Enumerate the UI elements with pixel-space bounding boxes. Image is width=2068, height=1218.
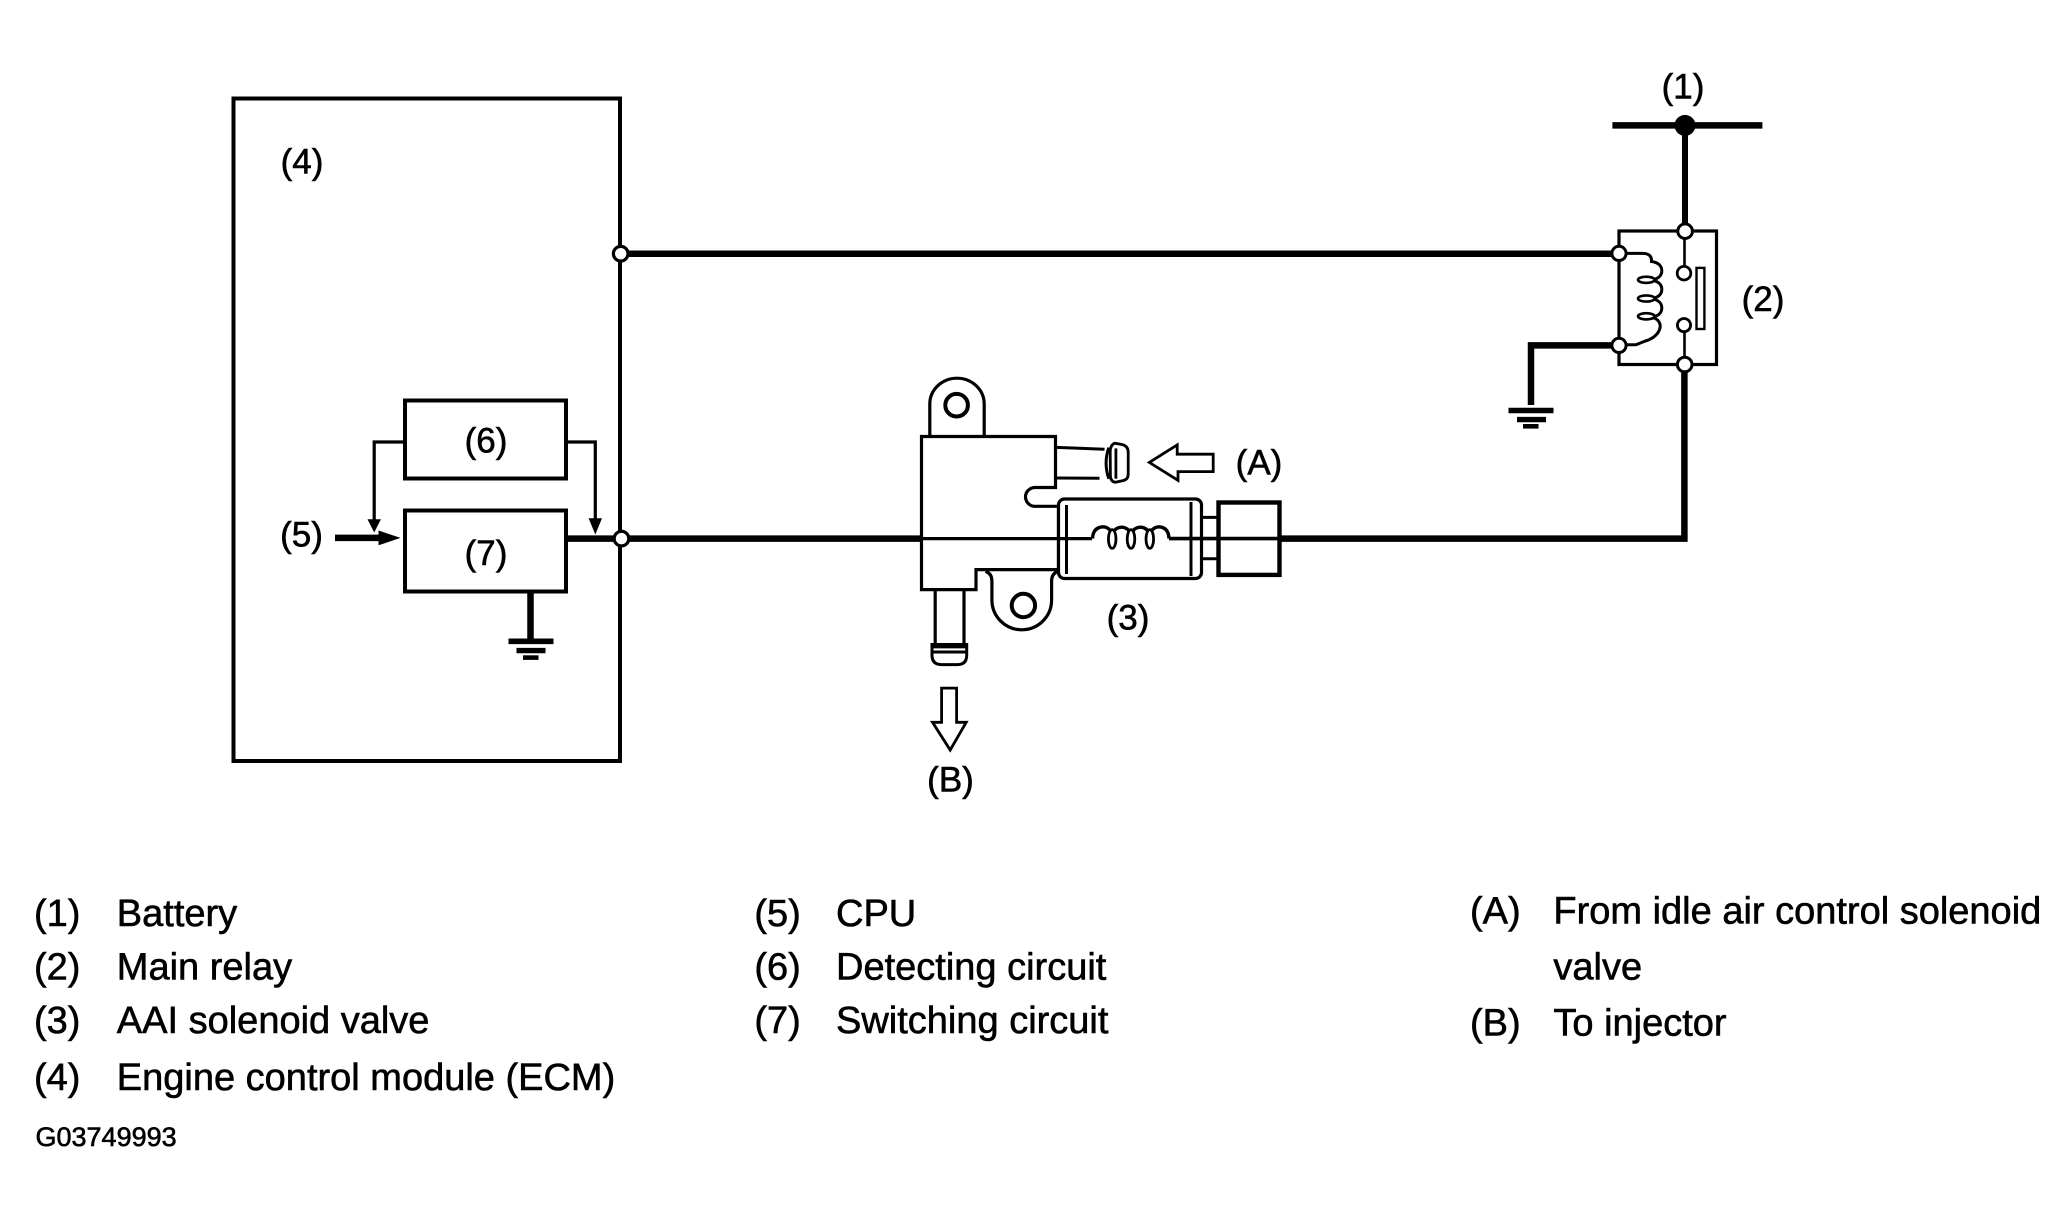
svg-text:(5): (5) — [280, 516, 323, 555]
valve coil loop ellipse 1 — [1108, 530, 1116, 549]
svg-text:From idle air control solenoid: From idle air control solenoid — [1553, 891, 2041, 933]
svg-text:Battery: Battery — [117, 893, 237, 935]
wire: loop from (6) left side down — [374, 442, 405, 520]
svg-text:(A): (A) — [1236, 444, 1283, 483]
svg-text:valve: valve — [1553, 947, 1642, 989]
svg-text:(6): (6) — [465, 422, 508, 461]
valve top tab hole — [945, 394, 968, 417]
CPU input arrow (5) — [335, 535, 380, 542]
valve main body — [922, 437, 1059, 590]
svg-text:To injector: To injector — [1553, 1003, 1727, 1045]
svg-text:(2): (2) — [34, 947, 80, 989]
wire: thin segment across valve body — [922, 537, 1093, 540]
relay contact slot — [1697, 268, 1705, 329]
svg-text:(2): (2) — [1742, 280, 1785, 319]
relay terminal pin: bottom — [1677, 357, 1692, 372]
wire: thin segment right of coil — [1169, 537, 1280, 541]
wire: loop from (6) right side down — [566, 442, 595, 519]
relay contact circle (top) — [1677, 266, 1691, 280]
AAI solenoid valve (3): top mounting tab — [930, 378, 984, 437]
node B: junction on ECM right edge (bottom wire) — [614, 531, 629, 546]
svg-text:Main relay: Main relay — [117, 947, 292, 989]
relay contact link line (top) — [1683, 231, 1686, 267]
main relay K1 (2): outer case — [1619, 231, 1717, 365]
svg-text:(4): (4) — [34, 1057, 80, 1099]
relay terminal pin: coil top-left — [1612, 246, 1626, 260]
valve coil loop ellipse 3 — [1146, 530, 1154, 549]
valve bottom mounting tab — [986, 571, 1059, 629]
svg-text:Switching circuit: Switching circuit — [836, 1000, 1109, 1042]
svg-text:CPU: CPU — [836, 893, 916, 935]
connector small piece — [1202, 516, 1219, 519]
connector body — [1219, 503, 1280, 575]
svg-text:(B): (B) — [1470, 1003, 1521, 1045]
can inner left line — [1065, 505, 1068, 574]
valve nozzle tip — [1110, 443, 1128, 482]
relay terminal pin: top — [1678, 224, 1693, 239]
valve bottom pipe — [934, 590, 937, 646]
svg-text:(1): (1) — [34, 893, 80, 935]
wire: top wire ECM to relay coil — [620, 250, 1619, 257]
relay terminal pin: coil bottom-left — [1612, 338, 1626, 352]
svg-text:(3): (3) — [1107, 599, 1150, 638]
node A: junction on ECM right edge (top wire) — [613, 246, 628, 261]
arrowhead right loop — [589, 518, 602, 534]
wire: relay coil to ground — [1531, 345, 1612, 405]
svg-text:G03749993: G03749993 — [36, 1122, 177, 1152]
wire: bottom output wire from box (7) to valve — [566, 535, 922, 542]
ECM box U4 (4) — [234, 99, 621, 762]
ground at relay — [1509, 408, 1554, 414]
can inner right line — [1190, 502, 1193, 576]
svg-text:(4): (4) — [281, 143, 324, 182]
pipe flange — [932, 645, 967, 665]
svg-text:AAI solenoid valve: AAI solenoid valve — [117, 1000, 430, 1042]
svg-text:(3): (3) — [34, 1000, 80, 1042]
valve bottom tab hole — [1012, 594, 1035, 617]
valve coil loop ellipse 2 — [1127, 530, 1135, 549]
svg-text:(B): (B) — [927, 761, 974, 800]
relay contact circle (bottom) — [1677, 319, 1690, 332]
coil turn ellipse 1 — [1638, 277, 1655, 283]
svg-text:(7): (7) — [754, 1000, 800, 1042]
arrow (A) from idle air control solenoid valve — [1149, 445, 1213, 480]
wire: battery to relay — [1682, 128, 1688, 226]
svg-text:(7): (7) — [465, 534, 508, 573]
relay coil (pictorial) — [1619, 253, 1662, 344]
svg-text:(5): (5) — [754, 893, 800, 935]
svg-text:(A): (A) — [1470, 891, 1521, 933]
valve coil — [1093, 527, 1170, 539]
coil turn ellipse 2 — [1638, 295, 1655, 301]
wire: bottom output wire right segment to relay — [1280, 368, 1684, 539]
svg-text:Detecting circuit: Detecting circuit — [836, 947, 1107, 989]
battery (1): bus bar with junction dot — [1612, 122, 1762, 129]
svg-text:(6): (6) — [754, 947, 800, 989]
svg-text:(1): (1) — [1662, 68, 1705, 107]
ground under box (7) — [527, 592, 534, 641]
detecting circuit box (6) — [405, 401, 566, 479]
arrowhead left loop — [368, 519, 381, 532]
relay contact link line (bottom) — [1683, 330, 1686, 365]
switching circuit box (7) — [405, 511, 566, 592]
coil turn ellipse 3 — [1638, 313, 1655, 319]
arrow (B) to injector — [933, 688, 967, 750]
valve solenoid can — [1059, 499, 1202, 579]
valve nozzle collar — [1106, 448, 1109, 479]
svg-text:Engine control module (ECM): Engine control module (ECM) — [117, 1057, 615, 1099]
valve nozzle tube — [1057, 447, 1105, 449]
